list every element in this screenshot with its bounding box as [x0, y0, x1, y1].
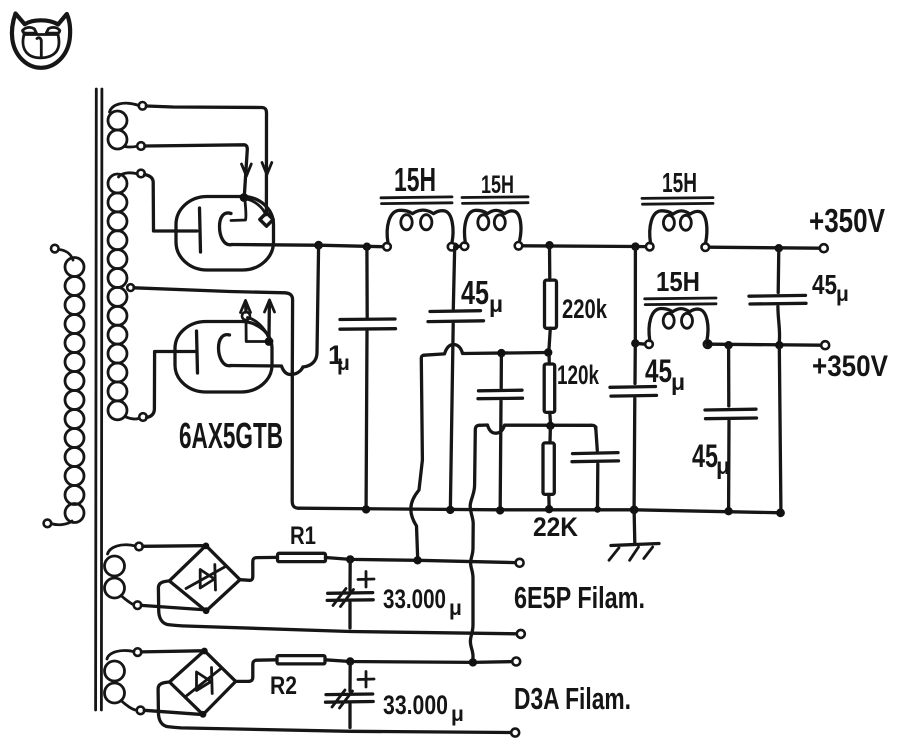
- capacitor C3 (node B decoupler): [478, 353, 523, 506]
- capacitor C1 1u: [340, 247, 396, 506]
- junction dot C9 top: [346, 657, 354, 665]
- junction dot L4 left: [631, 339, 639, 347]
- resistor R2: [277, 656, 325, 664]
- svg-text:μ: μ: [716, 453, 730, 479]
- svg-text:6E5P Filam.: 6E5P Filam.: [514, 580, 645, 615]
- wire S3 bottom to bridge D1 AC2: [141, 605, 202, 609]
- HV winding center tap: [127, 284, 134, 291]
- terminal +350V upper: [820, 244, 828, 252]
- wire HV center tap to ground drop: [134, 288, 293, 372]
- junction dot C8 top: [346, 555, 354, 563]
- wire S4 top to bridge D2 AC1: [141, 651, 200, 652]
- junction dot C6 top: [775, 244, 783, 252]
- wire D1 minus corner to 6E5P return rail: [158, 581, 516, 634]
- V2 plate bar: [197, 331, 198, 373]
- svg-text:15H: 15H: [656, 266, 700, 297]
- B+ rail segment choke L3 to +350V terminal: [709, 247, 820, 248]
- svg-text:45: 45: [692, 438, 718, 474]
- svg-text:22K: 22K: [533, 512, 578, 542]
- terminal 6E5P minus: [517, 630, 525, 638]
- junction dot node B drop: [413, 556, 421, 564]
- V1 filament inner link: [231, 201, 246, 221]
- junction dot C2 bottom: [446, 506, 454, 514]
- resistor 22K: [543, 426, 554, 506]
- wire S1 lower terminal to V1 heater (down arrow): [145, 145, 248, 193]
- junction dot R220k top: [545, 241, 553, 249]
- junction dot 22K bottom: [545, 505, 553, 513]
- V1 filament arc: [247, 199, 266, 215]
- V1 plate wire from S2 top: [145, 175, 198, 232]
- svg-text:μ: μ: [489, 291, 503, 317]
- V1 cathode: [220, 213, 233, 245]
- svg-text:μ: μ: [671, 369, 685, 395]
- terminal 6E5P plus: [516, 559, 524, 567]
- svg-text:R2: R2: [270, 672, 297, 700]
- capacitor C8 33.000u: [327, 559, 374, 628]
- resistor 120k: [544, 356, 555, 422]
- wire D2 plus corner to R2: [236, 660, 277, 682]
- node C wire (120k bottom / 22K top): [480, 425, 592, 433]
- wire S4 bottom to bridge D2 AC2: [144, 710, 199, 714]
- wire to L4 left terminal: [635, 342, 645, 346]
- V2 cathode output wire with hop over ground drop: [231, 366, 303, 375]
- svg-text:R1: R1: [290, 522, 316, 550]
- svg-text:+350V: +350V: [812, 350, 888, 383]
- terminal D3A minus: [511, 729, 519, 737]
- B+ rail segment node A to choke L1: [319, 245, 384, 247]
- tube V1 6AX5GTB envelope: [176, 197, 274, 271]
- svg-text:+350V: +350V: [809, 202, 885, 239]
- capacitor C2 45u: [428, 247, 484, 506]
- junction dot node B: [544, 348, 552, 356]
- V2 cathode: [219, 335, 232, 366]
- capacitor C5 45u (after L4 left): [610, 343, 657, 506]
- svg-text:45: 45: [645, 353, 672, 389]
- V1 filament pin dot: [240, 193, 249, 202]
- V2 filament pin dot: [265, 337, 274, 346]
- wire node B corner down to R1 output: [411, 355, 424, 556]
- capacitor C7 45u (bottom right): [705, 345, 757, 507]
- node A junction dot (V1+V2 cathodes): [314, 241, 323, 250]
- ground rail: [299, 508, 782, 513]
- capacitor C6 45u (top right): [749, 248, 806, 341]
- svg-text:μ: μ: [449, 597, 462, 620]
- ground symbol: [609, 510, 659, 561]
- svg-text:6AX5GTB: 6AX5GTB: [179, 415, 283, 456]
- svg-text:45: 45: [812, 269, 837, 300]
- junction dot C6 bottom: [775, 341, 783, 349]
- junction dot ground drop to D3A plus: [469, 658, 477, 666]
- V1 cathode output wire to node A: [232, 243, 314, 247]
- down arrowhead on V1 heater wire right: [262, 163, 272, 175]
- choke L1 15H: [381, 197, 455, 251]
- capacitor C9 33.000u: [326, 662, 375, 728]
- junction dot C1 top: [363, 243, 371, 251]
- wire S3 top to bridge D1 AC1: [143, 544, 202, 548]
- svg-text:33.000: 33.000: [383, 584, 446, 614]
- wire node C corner down to D3A+: [470, 425, 479, 659]
- junction dot C1 bottom: [362, 505, 370, 513]
- junction dot L4 right: [705, 340, 712, 347]
- wire node C right corner down to C4: [591, 425, 596, 429]
- wire D1 plus corner to R1: [240, 557, 277, 580]
- svg-text:120k: 120k: [557, 360, 600, 390]
- V2 heater stub with up arrow 2: [267, 302, 271, 338]
- junction dot C2 top: [451, 243, 459, 251]
- junction dot C3 feed: [497, 349, 505, 357]
- junction dot node C: [546, 422, 554, 430]
- wire D2 minus corner to D3A return rail: [158, 682, 511, 733]
- V2 filament arc: [248, 318, 269, 337]
- down arrowhead on V1 heater wire left: [242, 164, 252, 176]
- wire S1 top terminal to V1 heater (down arrow): [146, 106, 266, 214]
- V1 plate bar: [200, 208, 201, 252]
- junction dot L4 feed: [631, 242, 639, 250]
- resistor R1: [278, 553, 326, 561]
- svg-text:15H: 15H: [481, 171, 514, 199]
- choke L4 15H: [645, 298, 716, 348]
- transformer filament winding S4 (bridge D2): [105, 648, 145, 714]
- +350V lower rail: [711, 344, 821, 345]
- wire choke L1 to choke L2: [455, 245, 460, 249]
- junction dot ground stem: [630, 505, 639, 514]
- junction dot rail end: [776, 508, 785, 517]
- transformer primary winding: [44, 245, 84, 527]
- node B wire (220k bottom / 120k top): [424, 345, 548, 356]
- transformer filament winding S3 (bridge D1): [105, 543, 143, 609]
- V2 plate wire from S2 bottom: [147, 352, 196, 418]
- V1 cathode terminal diamond: [260, 213, 273, 226]
- V2 filament inner link: [246, 320, 265, 342]
- wire node A down to V2 cathode: [303, 245, 319, 367]
- svg-text:μ: μ: [451, 703, 464, 726]
- wire ground drop to ground rail: [292, 372, 299, 508]
- bridge rectifier D1: [169, 543, 240, 615]
- B+ rail segment choke L2 to choke L3: [522, 244, 646, 248]
- svg-text:33.000: 33.000: [383, 690, 448, 720]
- svg-text:15H: 15H: [394, 161, 436, 198]
- tube V2 6AX5GTB envelope: [175, 322, 272, 393]
- wire R1 to 6E5P plus terminal: [326, 558, 516, 563]
- junction dot C4 bottom: [594, 506, 601, 513]
- bridge rectifier D2: [170, 648, 236, 718]
- terminal D3A plus: [512, 658, 520, 666]
- svg-text:μ: μ: [337, 352, 350, 375]
- V2 filament pin circle: [242, 312, 250, 320]
- svg-text:15H: 15H: [662, 167, 697, 198]
- logo cat-head mark: [12, 14, 70, 68]
- wire +350V lower rail down to ground rail end: [779, 345, 781, 509]
- terminal +350V lower: [821, 341, 829, 349]
- junction dot C7 top: [724, 341, 732, 349]
- capacitor C4 (node C decoupler): [572, 427, 619, 506]
- V2 heater stub with up arrow 1: [244, 302, 248, 312]
- wire R2 to D3A plus terminal: [325, 660, 512, 663]
- choke L3 15H: [642, 198, 713, 251]
- transformer HV winding S2: [108, 170, 147, 421]
- svg-text:220k: 220k: [562, 294, 608, 324]
- svg-text:D3A Filam.: D3A Filam.: [514, 681, 631, 716]
- wire B+ rail down to choke L4: [634, 247, 637, 344]
- choke L2 15H: [461, 197, 528, 250]
- transformer secondary winding S1 (V1 heater): [108, 102, 146, 150]
- resistor 220k: [545, 245, 557, 349]
- svg-text:μ: μ: [836, 283, 849, 306]
- junction dot C3 bottom: [496, 506, 504, 514]
- transformer T1 core: [96, 89, 102, 710]
- svg-text:45: 45: [461, 274, 489, 311]
- junction dot C7 bottom: [724, 507, 732, 515]
